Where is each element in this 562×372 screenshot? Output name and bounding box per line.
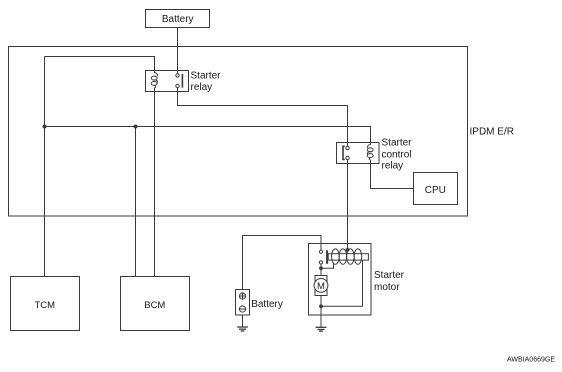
svg-text:Starter: Starter xyxy=(382,137,413,148)
svg-text:AWBIA0669GE: AWBIA0669GE xyxy=(507,357,555,364)
ground (battery B2) xyxy=(237,327,248,331)
starter motor box xyxy=(309,244,372,316)
svg-text:BCM: BCM xyxy=(144,300,165,311)
node junction on bus at BCM branch xyxy=(134,125,138,129)
wire left riser (corner to TCM) xyxy=(44,57,46,277)
battery B1 (top) xyxy=(146,10,210,28)
wire battery B1 to starter relay contact xyxy=(177,28,179,74)
svg-text:motor: motor xyxy=(374,282,400,293)
ground (starter motor) xyxy=(316,327,327,331)
node junction on bus at TCM riser xyxy=(43,125,47,129)
wire battery B2 positive to starter motor contact xyxy=(243,236,322,290)
starter motor solenoid contacts xyxy=(319,250,328,264)
starter control relay coil xyxy=(367,143,373,164)
svg-text:CPU: CPU xyxy=(425,185,446,196)
node junction motor bottom xyxy=(319,304,323,308)
starter motor solenoid core xyxy=(328,254,368,260)
svg-text:Starter: Starter xyxy=(374,270,405,281)
starter control relay K2 box xyxy=(337,143,380,164)
wire horizontal bus to starter control relay coil xyxy=(45,127,371,143)
wire motor bottom to ground junction xyxy=(320,295,322,306)
svg-text:TCM: TCM xyxy=(35,300,56,311)
wire starter control relay coil to CPU xyxy=(371,164,414,189)
starter control relay contacts xyxy=(343,146,349,159)
wire solenoid lower contact to motor junction xyxy=(320,264,322,275)
IPDM E/R enclosure box xyxy=(9,47,468,217)
wire motor junction to ground xyxy=(320,306,322,327)
svg-text:Battery: Battery xyxy=(251,299,283,310)
node junction below solenoid contact xyxy=(319,266,323,270)
svg-text:control: control xyxy=(382,149,412,160)
svg-text:IPDM E/R: IPDM E/R xyxy=(470,126,514,137)
starter relay contacts xyxy=(176,74,183,88)
wire starter control relay contact down to starter motor solenoid xyxy=(347,160,349,250)
node junction solenoid coil top xyxy=(346,248,350,252)
starter relay coil xyxy=(151,71,157,92)
wire bus branch to BCM xyxy=(135,127,137,277)
svg-text:Starter: Starter xyxy=(191,71,222,82)
BCM box xyxy=(121,277,190,331)
TCM box xyxy=(11,277,80,331)
wire battery B2 negative to ground xyxy=(242,315,244,327)
wire solenoid coil return (right side) xyxy=(321,260,363,306)
motor M1 (circle M in brush box) xyxy=(314,276,328,296)
wire bus corner to starter relay coil top xyxy=(45,57,155,71)
label Starter control relay xyxy=(382,137,413,171)
starter motor solenoid coil windings xyxy=(332,249,362,264)
starter relay K1 box xyxy=(146,71,189,92)
wire starter relay contact to starter control relay contact xyxy=(178,88,348,147)
label Starter relay xyxy=(191,71,222,93)
svg-text:relay: relay xyxy=(382,161,404,172)
label Starter motor xyxy=(374,270,405,293)
svg-text:Battery: Battery xyxy=(162,14,194,25)
svg-text:M: M xyxy=(317,281,325,292)
CPU box U1 xyxy=(414,173,458,205)
wire starter relay coil to BCM xyxy=(154,92,156,277)
wire junction to solenoid coil end xyxy=(321,264,334,269)
battery B2 (lower) symbol xyxy=(236,290,250,316)
svg-text:relay: relay xyxy=(191,82,213,93)
